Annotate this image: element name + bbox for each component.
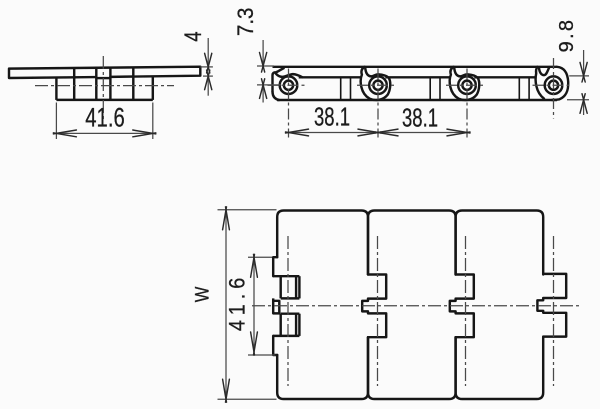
chain top surface line [273, 66, 558, 68]
hinge knuckle at pin 2 [361, 67, 391, 100]
svg-text:38.1: 38.1 [314, 102, 350, 131]
right end hinge zigzag (plate 3) [537, 274, 566, 337]
left hinge: central knuckle mini-box [273, 301, 279, 314]
hinge centerlines (top view) [287, 236, 289, 386]
svg-text:41.6: 41.6 [225, 273, 249, 331]
pin slot verticals [95, 68, 97, 100]
pin 4 bore circle [549, 81, 558, 90]
pin 1 bore circle [284, 81, 293, 90]
pin 4 horizontal centerline [533, 84, 571, 86]
svg-text:41.6: 41.6 [85, 104, 124, 133]
top figure: chain side view [273, 67, 569, 100]
chain right end cap (boss of pin 4) [552, 67, 568, 100]
left hinge: plate 1 edge bulge (hinge zone outline) [273, 257, 277, 276]
link butt joints (barrel side walls) [340, 77, 342, 100]
hinge bottom line [56, 99, 152, 101]
left end knuckle (link 1) [273, 68, 284, 92]
pin 1 horizontal centerline [268, 84, 306, 86]
plate 1 outline [277, 211, 368, 400]
plate underside lines [299, 76, 362, 78]
hinge knuckle at pin 3 [450, 67, 480, 100]
pin 3 vertical centerline [466, 69, 468, 138]
svg-text:7.3: 7.3 [233, 8, 258, 36]
pin 4 vertical centerline [553, 58, 555, 119]
chain longitudinal centerline [252, 305, 580, 307]
pin 2 bore circle [373, 81, 382, 90]
hinge vertical centerline [102, 56, 104, 119]
svg-text:9.8: 9.8 [556, 18, 578, 53]
left hinge: notch edges [273, 275, 299, 277]
pin 2 outer circle [369, 76, 387, 94]
junction 1 hinge zigzag [362, 275, 386, 338]
plate 2 outline [368, 211, 456, 400]
dimension 41.6 (left figure) [53, 103, 155, 140]
svg-text:4: 4 [181, 31, 207, 41]
pin 4 outer circle [545, 76, 563, 94]
dimension 9.8 [556, 18, 589, 115]
dimension W [191, 207, 277, 402]
pin 1 vertical centerline [288, 69, 290, 138]
dimension 4 (plate thickness) [181, 31, 213, 95]
pin 3 horizontal centerline [446, 84, 484, 86]
dimension 38.1 (pitch, twice) [286, 102, 471, 136]
plate 3 outline [456, 211, 544, 400]
chain bottom line [277, 99, 557, 101]
hinge horizontal centerline [35, 85, 174, 87]
pin 2 vertical centerline [377, 69, 379, 138]
pin 1 outer circle [280, 76, 298, 94]
hinge outer step verticals [55, 78, 57, 100]
hinge knuckle at pin 4 [536, 67, 544, 99]
left figure: plate cross-section side view [9, 56, 200, 119]
dimension 41.6 (hinge width) [225, 254, 275, 355]
junction 2 hinge zigzag [450, 275, 474, 338]
plate outline [9, 67, 200, 78]
pin 3 outer circle [458, 76, 476, 94]
svg-text:38.1: 38.1 [402, 103, 438, 132]
hinge full-height verticals [73, 68, 75, 100]
pin slot divider [96, 77, 110, 79]
svg-text:W: W [191, 286, 213, 302]
pin 2 horizontal centerline [357, 84, 395, 86]
dimension 7.3 [233, 8, 281, 103]
pin 3 bore circle [462, 81, 471, 90]
left hinge: knuckle tab edges of partial link [279, 277, 281, 299]
